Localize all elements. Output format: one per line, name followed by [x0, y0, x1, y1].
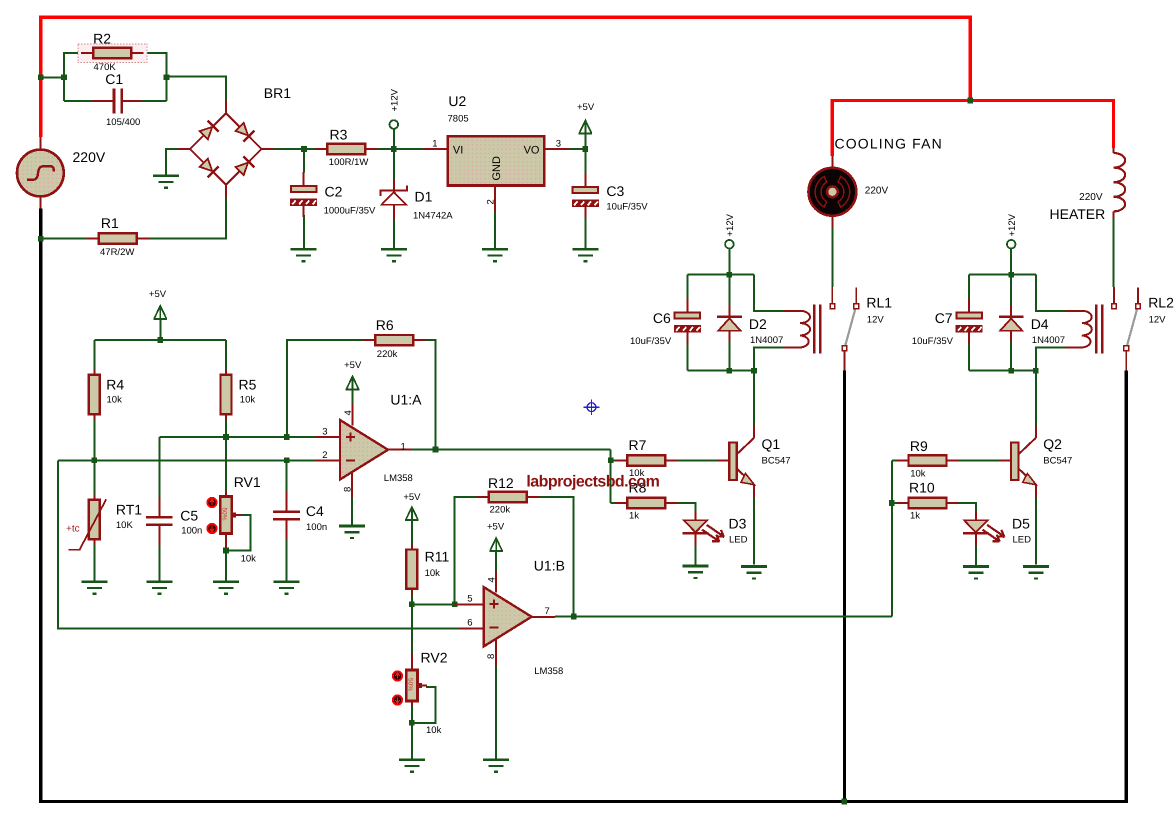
power arrow +5V (U2 out) — [579, 120, 591, 133]
svg-text:1000uF/35V: 1000uF/35V — [324, 206, 376, 217]
svg-text:7805: 7805 — [448, 114, 469, 125]
ground (RV2) — [399, 758, 425, 761]
svg-text:GND: GND — [491, 156, 503, 181]
ground (D3) — [683, 565, 709, 568]
svg-text:1N4007: 1N4007 — [750, 335, 783, 346]
capacitor C4 100n — [286, 491, 288, 510]
ground (C4) — [274, 580, 300, 583]
wire D5 to ground — [975, 539, 977, 566]
svg-text:+tc: +tc — [66, 524, 80, 535]
svg-text:Q1: Q1 — [762, 436, 781, 452]
capacitor C6 10uF/35V — [686, 299, 688, 313]
resistor R2 selection highlight — [78, 44, 147, 63]
wire R11 bottom to pin5 node — [411, 591, 413, 604]
wire 220V neutral black rail (left/bottom) — [41, 208, 1127, 801]
wire +12V drop to relay rail — [728, 248, 730, 274]
svg-text:R5: R5 — [239, 377, 257, 393]
wire U1:B output long run — [555, 616, 892, 618]
svg-text:D4: D4 — [1031, 316, 1049, 332]
wire +12V terminal drop — [393, 129, 395, 149]
wire RT1 column — [93, 460, 95, 495]
wire U1:A pin4 to +5V — [352, 390, 354, 404]
wire BR1 bottom to R1 — [149, 197, 226, 238]
svg-text:3: 3 — [556, 138, 561, 149]
resistor R6 220k — [363, 339, 375, 341]
svg-text:COOLING FAN: COOLING FAN — [835, 136, 943, 152]
wire R11 column — [411, 521, 413, 548]
wire node to C2 — [303, 149, 305, 173]
wire R5 down through pin3 node to RV1 — [225, 419, 227, 493]
svg-text:R10: R10 — [909, 480, 935, 496]
wire +5V rail over R4/R5 — [94, 339, 226, 341]
wire C3 to ground — [584, 206, 586, 249]
relay contact RL1 — [831, 287, 833, 304]
svg-text:LM358: LM358 — [534, 666, 563, 677]
svg-text:C4: C4 — [306, 503, 324, 519]
svg-text:R2: R2 — [93, 30, 111, 46]
svg-text:R12: R12 — [488, 475, 514, 491]
wire right node to BR1 top — [167, 76, 227, 100]
heater element — [1112, 148, 1114, 153]
power arrow +5V (R11) — [406, 507, 418, 520]
svg-text:BR1: BR1 — [264, 85, 291, 101]
wire RV2 wiper loop — [413, 687, 436, 723]
svg-text:100R/1W: 100R/1W — [329, 157, 369, 168]
svg-text:50%: 50% — [407, 678, 414, 691]
junction dots — [38, 75, 44, 81]
wire source to R2/C1 left node — [41, 76, 64, 78]
wire +12V drop to relay rail — [1010, 248, 1012, 274]
svg-text:LM358: LM358 — [384, 473, 413, 484]
capacitor C7 10uF/35V — [968, 299, 970, 313]
svg-text:8: 8 — [486, 654, 497, 659]
wire C2 to ground — [303, 215, 305, 249]
svg-text:220V: 220V — [1079, 192, 1103, 203]
svg-text:+12V: +12V — [389, 88, 400, 111]
wire relay bottom rail — [969, 370, 1036, 372]
wire RT1 to ground — [93, 544, 95, 582]
svg-text:4: 4 — [343, 410, 354, 415]
wire +5V arrow to node to C3 — [584, 134, 586, 179]
wire relay RL1 pole to bottom rail (black) — [843, 370, 846, 801]
svg-text:10k: 10k — [426, 725, 442, 736]
resistor R12 220k — [477, 496, 489, 498]
svg-text:1N4007: 1N4007 — [1032, 335, 1065, 346]
svg-text:6: 6 — [467, 618, 472, 629]
svg-text:1: 1 — [432, 138, 437, 149]
wire RV2 to ground — [411, 706, 413, 759]
svg-text:10uF/35V: 10uF/35V — [912, 336, 954, 347]
ground (C2) — [291, 248, 317, 251]
svg-text:HEATER: HEATER — [1050, 206, 1106, 222]
svg-text:7: 7 — [545, 606, 550, 617]
wire BR1 right to R3 node — [273, 148, 316, 150]
ground (D5) — [963, 565, 989, 568]
ground (U1:A pin8) — [339, 525, 365, 528]
wire R5 column — [225, 340, 227, 371]
svg-text:+5V: +5V — [403, 492, 421, 503]
wire relay coil bottom lead — [1036, 348, 1066, 371]
svg-text:10K: 10K — [116, 520, 134, 531]
svg-text:C1: C1 — [105, 71, 123, 87]
svg-text:10k: 10k — [241, 554, 257, 565]
wire output column for U1:B — [891, 461, 893, 617]
resistor R4 10k — [93, 370, 95, 375]
wire pin5 node down to RV2 — [411, 604, 413, 653]
wire R6 feedback left leg — [287, 340, 365, 437]
svg-text:10k: 10k — [107, 395, 123, 406]
AC source V1 220V — [40, 137, 42, 150]
svg-text:R9: R9 — [910, 438, 928, 454]
relay contact RL2 — [1113, 287, 1115, 304]
resistor R11 10k — [411, 545, 413, 550]
wire RT1 node loop to U1:B pin6 — [58, 460, 459, 628]
svg-text:1N4742A: 1N4742A — [413, 211, 453, 222]
wire C1 row — [64, 100, 93, 102]
wire RV1 to ground — [225, 547, 227, 581]
svg-text:100n: 100n — [181, 526, 202, 537]
bridge rectifier BR1 — [225, 100, 227, 113]
wire R9 row from output column — [892, 460, 897, 462]
wire snubber cap bottom leg — [968, 336, 970, 371]
svg-text:R6: R6 — [376, 317, 394, 333]
wire C4 to ground — [286, 538, 288, 582]
wire R4 column — [93, 340, 95, 371]
capacitor C3 10uF/35V — [584, 173, 586, 187]
capacitor C2 1000uF/35V — [303, 172, 305, 186]
svg-text:D5: D5 — [1012, 516, 1030, 532]
resistor R9 10k — [896, 460, 908, 462]
wire RV1 wiper loop — [227, 515, 251, 550]
relay coil RL2 — [1065, 311, 1091, 348]
svg-text:C7: C7 — [935, 310, 953, 326]
ground (RT1) — [81, 580, 107, 583]
capacitor C1 105/400 — [93, 100, 113, 102]
wire R2 right to right node — [144, 53, 167, 101]
svg-text:Q2: Q2 — [1043, 436, 1062, 452]
wire R8 to LED D3 — [676, 503, 696, 512]
wire U2 pin3 to +5V node — [569, 148, 585, 150]
svg-text:+5V: +5V — [344, 360, 362, 371]
svg-text:50%: 50% — [221, 508, 228, 521]
wire relay +12V rail — [969, 274, 1036, 276]
svg-text:12V: 12V — [867, 315, 885, 326]
svg-text:C2: C2 — [325, 184, 343, 200]
svg-text:LED: LED — [1013, 535, 1032, 546]
wire snubber cap bottom leg — [686, 336, 688, 371]
wire transistor collector — [1035, 371, 1037, 426]
transistor Q1 BC547 — [717, 460, 729, 462]
svg-text:C3: C3 — [606, 183, 624, 199]
wire transistor collector — [753, 371, 755, 426]
power arrow +5V (U1:B) — [490, 538, 502, 551]
wire R3 to +12V node to U2 pin1 — [377, 148, 424, 150]
power arrow +5V (U1:A) — [346, 376, 358, 389]
svg-text:12V: 12V — [1149, 315, 1167, 326]
svg-text:R11: R11 — [425, 549, 450, 565]
svg-text:R3: R3 — [330, 126, 348, 142]
resistor R5 10k — [225, 370, 227, 375]
wire fan lead — [831, 227, 833, 287]
svg-text:2: 2 — [485, 199, 496, 204]
wire relay coil top lead — [1036, 275, 1066, 311]
wire U1:B pin8 to ground — [495, 666, 497, 759]
wire relay +12V rail — [687, 274, 754, 276]
transistor Q2 BC547 — [999, 460, 1011, 462]
svg-text:1k: 1k — [629, 511, 639, 522]
op-amp U1:B LM358 — [455, 603, 484, 605]
wire relay coil bottom lead — [754, 348, 784, 371]
flyback diode D4 1N4007 — [1010, 306, 1012, 317]
wire red rail to fan and heater — [832, 101, 1113, 156]
power terminal +12V (RL2) — [1007, 240, 1016, 249]
svg-text:10uF/35V: 10uF/35V — [606, 202, 648, 213]
wire R12 left leg — [455, 497, 479, 604]
resistor R10 1k — [896, 502, 908, 504]
wire pin3 row down to C5 — [158, 437, 160, 499]
wire relay bottom rail — [687, 370, 754, 372]
svg-text:C6: C6 — [653, 310, 671, 326]
svg-text:2: 2 — [322, 450, 327, 461]
wire snubber cap top leg — [968, 275, 970, 305]
thermistor RT1 10K — [93, 495, 95, 500]
wire R10 row — [892, 502, 897, 504]
svg-text:4: 4 — [487, 577, 498, 582]
svg-text:220V: 220V — [865, 186, 889, 197]
svg-text:VO: VO — [524, 145, 540, 157]
ground (U1:B pin8) — [483, 758, 509, 761]
potentiometer RV2 10k — [411, 653, 413, 670]
wire output down R7 R8 column — [610, 450, 612, 504]
resistor R3 100R/1W — [315, 148, 327, 150]
svg-text:RV2: RV2 — [421, 650, 448, 666]
svg-text:U2: U2 — [448, 93, 466, 109]
svg-text:10k: 10k — [425, 568, 441, 579]
svg-text:10uF/35V: 10uF/35V — [630, 336, 672, 347]
wire R6 right leg to output — [425, 340, 436, 449]
wire node to D1 — [393, 149, 395, 179]
power terminal +12V (RL1) — [725, 240, 734, 249]
svg-text:C5: C5 — [180, 508, 198, 524]
svg-text:10k: 10k — [240, 395, 256, 406]
svg-text:1: 1 — [401, 442, 406, 453]
svg-text:5: 5 — [467, 594, 472, 605]
wire R7 row to Q1 base — [611, 459, 617, 461]
wire BR1 left to ground — [166, 149, 178, 176]
wire U1:B pin4 to +5V — [495, 551, 497, 571]
svg-text:D1: D1 — [415, 189, 433, 205]
svg-text:R7: R7 — [629, 437, 647, 453]
ground (C5) — [146, 580, 172, 583]
wire pin5 row — [412, 603, 455, 605]
cooling fan motor — [831, 156, 833, 168]
zener diode D1 1N4742A — [393, 179, 395, 191]
ground (BR1) — [153, 175, 179, 178]
svg-text:RT1: RT1 — [116, 502, 142, 518]
wire D3 to ground — [695, 539, 697, 566]
svg-text:47R/2W: 47R/2W — [100, 247, 134, 258]
svg-text:RV1: RV1 — [234, 474, 261, 490]
resistor R1 47R/2W — [86, 238, 98, 240]
wire U1:A pin8 to ground — [351, 497, 353, 525]
wire flyback diode legs — [1010, 275, 1012, 306]
svg-text:VI: VI — [453, 145, 463, 157]
svg-text:D2: D2 — [749, 316, 767, 332]
wire R2/C1 left branch — [64, 53, 81, 101]
LED D5 — [975, 512, 977, 520]
svg-text:+12V: +12V — [725, 213, 736, 236]
svg-text:220k: 220k — [377, 349, 398, 360]
svg-text:8: 8 — [342, 487, 353, 492]
svg-text:105/400: 105/400 — [106, 117, 140, 128]
svg-text:+12V: +12V — [1007, 213, 1018, 236]
origin marker — [584, 399, 600, 415]
svg-text:100n: 100n — [306, 522, 327, 533]
wire flyback diode legs — [728, 275, 730, 306]
potentiometer RV1 10k — [225, 492, 227, 497]
svg-text:3: 3 — [322, 426, 327, 437]
wire non-inverting line (pin3 row) — [159, 436, 315, 438]
wire inverting line (pin2 row) — [58, 459, 315, 461]
svg-text:R1: R1 — [101, 215, 119, 231]
ground (U2) — [482, 248, 508, 251]
svg-text:220V: 220V — [73, 149, 106, 165]
ground (D1) — [381, 248, 407, 251]
wire R4 to RT1 node — [93, 419, 95, 461]
power arrow +5V (divider) — [154, 306, 166, 319]
op-amp U1:A LM358 — [315, 436, 340, 438]
svg-text:10k: 10k — [910, 469, 926, 480]
ground (Q2) — [1023, 565, 1049, 568]
svg-text:+5V: +5V — [149, 289, 167, 300]
svg-text:LED: LED — [729, 535, 748, 546]
wire C5 to ground — [158, 544, 160, 582]
svg-text:RL1: RL1 — [866, 295, 892, 311]
LED D3 — [695, 512, 697, 520]
ground (RV1) — [213, 580, 239, 583]
svg-text:U1:B: U1:B — [534, 558, 565, 574]
wire C4 tee — [286, 460, 288, 492]
svg-text:labprojectsbd.com: labprojectsbd.com — [526, 474, 659, 491]
svg-text:1k: 1k — [910, 511, 920, 522]
wire U2 pin2 to ground — [494, 212, 496, 249]
wire +5V arrow drop — [159, 319, 161, 340]
svg-text:RL2: RL2 — [1148, 295, 1174, 311]
wire U1:A output to R7/R8 node — [412, 449, 611, 451]
svg-text:BC547: BC547 — [1043, 456, 1072, 467]
resistor R8 1k — [615, 502, 627, 504]
wire R10 to LED D5 — [958, 503, 976, 512]
wire R8 left stub row — [611, 502, 617, 504]
wire transistor emitter to ground — [753, 498, 755, 565]
svg-text:+5V: +5V — [577, 102, 595, 113]
svg-text:R4: R4 — [106, 377, 124, 393]
capacitor C5 100n — [158, 497, 160, 516]
ground (Q1) — [741, 565, 767, 568]
wire R12 right leg to output — [537, 497, 573, 617]
resistor R2 470K — [81, 52, 93, 54]
power terminal +12V (supply) — [390, 120, 399, 129]
svg-text:220k: 220k — [490, 505, 511, 516]
wire R1 left to neutral — [41, 238, 88, 240]
svg-text:+5V: +5V — [487, 521, 505, 532]
wire snubber cap top leg — [686, 275, 688, 305]
wire heater lead — [1113, 219, 1115, 288]
wire relay coil top lead — [754, 275, 784, 311]
resistor R7 10k — [615, 459, 627, 461]
wire D1 to ground — [393, 218, 395, 249]
relay coil RL1 — [784, 311, 810, 348]
svg-text:U1:A: U1:A — [390, 391, 422, 407]
flyback diode D2 1N4007 — [728, 306, 730, 317]
wire 220V live red rail (top) — [41, 17, 971, 137]
ground (C3) — [572, 248, 598, 251]
wire transistor emitter to ground — [1035, 498, 1037, 565]
svg-text:BC547: BC547 — [762, 456, 791, 467]
svg-text:D3: D3 — [729, 516, 747, 532]
regulator U2 7805 — [424, 148, 448, 150]
